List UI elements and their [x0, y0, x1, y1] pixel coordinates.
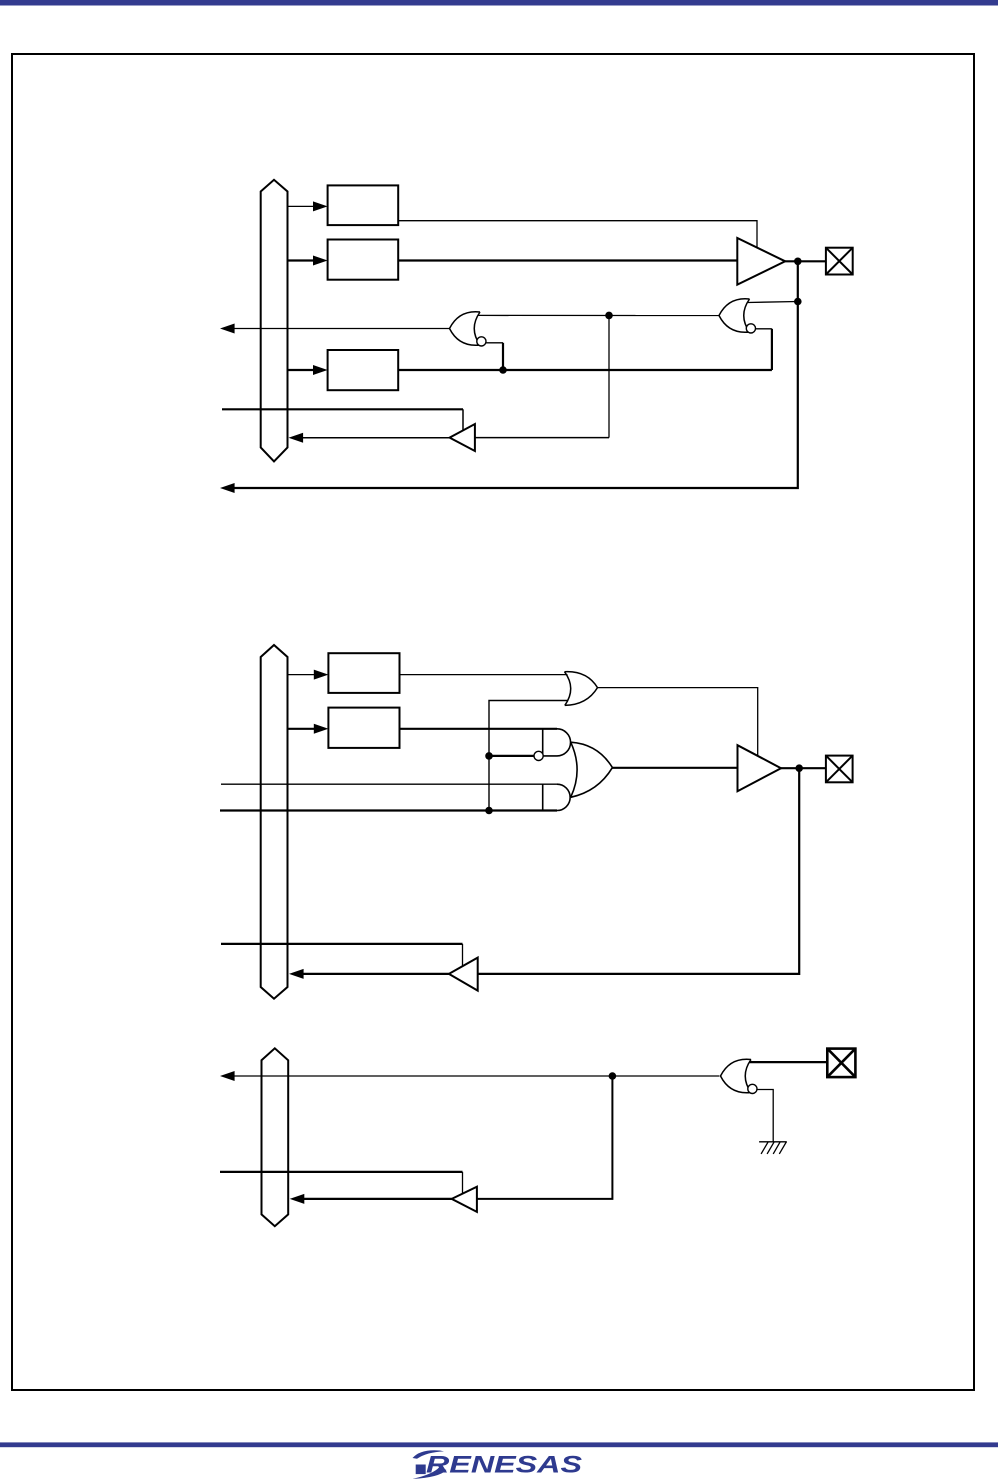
renesas logo R bottom swoosh [413, 1467, 447, 1479]
wire pad node down to read line [234, 261, 798, 488]
arrow bus to register box4 [288, 674, 317, 676]
internal data bus 1 [261, 180, 288, 462]
junction dot on gate1 input wire [605, 312, 613, 320]
arrowhead read line [220, 1071, 235, 1081]
renesas logo R top swoosh [413, 1450, 445, 1459]
and1 body [543, 729, 571, 756]
wire tb1 horizontal [222, 408, 463, 410]
junction dot riser/line2 [485, 807, 493, 815]
wire gate2 output to gate1 input [478, 314, 719, 316]
and1 bubble input wire [489, 755, 534, 757]
I/O pad3 [827, 1049, 855, 1078]
input buffer tri3 [449, 958, 478, 991]
internal data bus 2 [261, 645, 288, 999]
input buffer tri4 [452, 1187, 477, 1212]
junction dot read line [609, 1072, 617, 1080]
wire tb2 drop to input buffer [462, 944, 464, 966]
output buffer tri1 [737, 238, 785, 285]
arrow bus to register box1 [288, 205, 317, 207]
junction dot riser/bubble wire [485, 752, 493, 760]
register box5 [328, 708, 399, 748]
bottom blue rule [0, 1442, 998, 1447]
wire gate4 top input to pad3 [749, 1061, 827, 1063]
gate2 bubble [746, 324, 755, 333]
wire box1 output to buffer control [398, 221, 757, 252]
wire gate2 top input [748, 302, 798, 303]
wire input buffer to bus [302, 437, 450, 439]
wire buffer to pad2 [781, 767, 826, 769]
arrowhead gate1 read [220, 324, 235, 334]
wire input buffer right side [475, 437, 609, 439]
wire g3 bottom input riser [489, 701, 568, 811]
wire junction down to input buffer line [477, 1076, 613, 1199]
gate2 pad-read gate (mirrored OR) [719, 299, 750, 333]
wire input buffer to bus2 [303, 973, 449, 975]
wire pad2 node down to input buffer [478, 768, 800, 974]
wire box4 output to OR g3 [400, 674, 568, 676]
wire box3 output [398, 369, 772, 371]
gate1 read gate (mirrored OR) [450, 312, 481, 346]
arrow bus to register box2 [288, 259, 317, 261]
register box2 [328, 240, 399, 280]
renesas logo square [416, 1465, 426, 1475]
or gate g5 [571, 742, 613, 797]
wire box2 output to buffer [398, 259, 737, 261]
wire box5 output / and1 top edge [400, 728, 558, 730]
top header bar [0, 0, 998, 6]
wire read line to gate4 [234, 1075, 719, 1077]
junction dot gate2 input [794, 298, 802, 306]
svg-text:RENESAS: RENESAS [426, 1452, 582, 1479]
junction dot pad2 node [795, 764, 803, 772]
wire tb3 drop to input buffer [462, 1172, 464, 1196]
wire g5 output to buffer [612, 767, 737, 769]
I/O pad2 [826, 756, 853, 783]
wire gate1 output to bus (read) [234, 328, 450, 330]
wire gate2 bubble to box3 line [756, 328, 772, 330]
wire tb3 horizontal [220, 1171, 463, 1173]
wire tb2 horizontal [221, 943, 463, 945]
output buffer tri2 [738, 745, 782, 791]
internal data bus 3 [262, 1048, 289, 1226]
junction dot box3 line [499, 366, 507, 374]
ground symbol [759, 1142, 787, 1154]
wire junction down to input buffer line [608, 315, 610, 437]
wire g3 output to buffer control [598, 688, 758, 760]
or gate g3 [565, 672, 598, 706]
gate4 pad-read gate (mirrored OR) [721, 1059, 752, 1093]
gate4 bubble [748, 1084, 757, 1093]
arrow bus to register box5 [288, 728, 317, 730]
I/O pad1 [826, 248, 853, 275]
arrowhead bottom read line [220, 483, 235, 493]
and2 body [543, 784, 570, 810]
wire buffer to pad1 [785, 260, 826, 262]
arrowhead into bus2 [289, 969, 304, 979]
wire tb1 drop to input buffer [462, 409, 464, 432]
wire gate4 bubble to ground [757, 1090, 773, 1142]
register box3 [328, 350, 399, 390]
wire gate1 bubble to box3 line [486, 342, 503, 344]
input buffer tri1b [450, 424, 475, 451]
arrowhead into bus1 [289, 433, 304, 443]
register box1 [328, 185, 399, 225]
register box4 [328, 653, 399, 693]
arrowhead into bus3 [290, 1194, 305, 1204]
and1 bubble [534, 751, 543, 760]
gate1 bubble [477, 337, 486, 346]
wire input line2 [220, 809, 557, 811]
junction dot pad node [794, 258, 802, 266]
wire input buffer to bus3 [304, 1198, 452, 1200]
wire input line1 [221, 783, 557, 785]
arrow bus to register box3 [288, 369, 317, 371]
